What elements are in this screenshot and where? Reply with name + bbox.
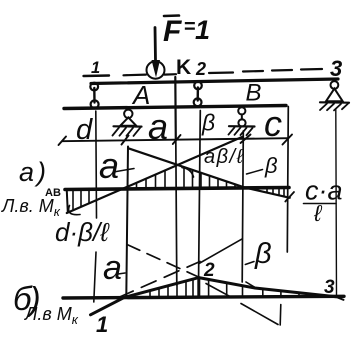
projection line at support 3 — [335, 110, 338, 297]
solid construction line to B — [199, 239, 242, 264]
support A (pinned) — [113, 110, 142, 136]
svg-text:1: 1 — [195, 15, 210, 45]
support B (roller link) — [229, 107, 255, 135]
leader for label a — [114, 169, 135, 173]
leader for label b — [247, 170, 263, 175]
main beam 1-K-2-3 — [91, 79, 338, 84]
dimension tick at A — [122, 136, 129, 145]
svg-text:а): а) — [19, 157, 49, 187]
svg-text:a: a — [103, 249, 122, 287]
dimension tick at B — [241, 135, 251, 144]
influence line b) rising line — [91, 278, 199, 315]
dashed construction rising line — [119, 262, 201, 298]
influence line b) descending line — [199, 278, 336, 297]
curved leader for d*b/l — [69, 206, 80, 215]
svg-text:3: 3 — [330, 56, 342, 81]
guide line segment left of circle — [124, 73, 147, 76]
influence line a) baseline — [65, 188, 289, 190]
svg-text:β: β — [264, 153, 278, 178]
dash below B vertical — [246, 282, 257, 289]
svg-text:1: 1 — [91, 59, 100, 77]
svg-text:Л.в Мк: Л.в Мк — [24, 304, 79, 327]
projection line at support B — [242, 131, 243, 282]
link 1 (hanger at node 1) — [90, 83, 98, 109]
svg-text:2: 2 — [203, 260, 215, 281]
projection line at support A — [126, 147, 128, 297]
right end value label c*a/l fraction — [304, 176, 343, 227]
hatching a) positive region — [137, 167, 236, 188]
hatching a) left negative region — [73, 191, 89, 210]
projection line at node 1 — [94, 111, 97, 302]
node 1 underline — [84, 74, 110, 77]
svg-text:β: β — [201, 110, 215, 136]
link 2 (hanger at node 2) — [194, 82, 202, 107]
guide line segment right of circle — [165, 73, 177, 76]
svg-text:d·β/ℓ: d·β/ℓ — [55, 217, 110, 247]
influence line b) end tail — [336, 297, 344, 300]
projection line at beam AB right end — [287, 107, 288, 253]
svg-text:B: B — [246, 80, 262, 107]
dimension tick left end — [59, 137, 67, 146]
influence line a) left end ordinate — [67, 191, 68, 213]
hatching b) left of peak — [150, 279, 193, 297]
force arrow — [152, 28, 161, 78]
svg-text:=: = — [184, 16, 196, 38]
dashed guide line 2 to 3 — [209, 69, 322, 73]
svg-text:1: 1 — [96, 312, 108, 337]
dashed construction line from A — [127, 245, 199, 278]
influence line a) right end slash — [285, 192, 294, 202]
stray diagonal below baseline — [241, 304, 278, 325]
leader for b in b) — [245, 262, 254, 265]
svg-text:a: a — [148, 106, 168, 147]
dimension tick right end — [283, 135, 293, 145]
dimension line — [62, 138, 288, 141]
influence line b) baseline — [63, 296, 344, 298]
support 3 (pinned) — [320, 81, 349, 110]
angle arc at crossing — [182, 168, 194, 178]
short construction line below apex — [206, 284, 232, 298]
svg-text:3: 3 — [324, 277, 335, 298]
svg-text:c·a: c·a — [305, 176, 343, 206]
stray vertical below baseline — [279, 305, 282, 326]
dimension tick at K — [173, 135, 181, 144]
projection line at node 2 — [199, 111, 201, 277]
svg-text:2: 2 — [195, 59, 206, 79]
svg-text:K: K — [176, 56, 191, 79]
svg-text:d: d — [76, 114, 93, 146]
svg-text:аβ/ℓ: аβ/ℓ — [204, 146, 245, 168]
force F=1 label — [163, 15, 210, 48]
load circle at K — [147, 61, 165, 78]
leader for a in b) — [118, 273, 125, 274]
influence line a) descending line — [128, 148, 289, 198]
svg-text:c: c — [264, 103, 282, 144]
svg-text:β: β — [254, 238, 272, 270]
lower beam AB — [64, 106, 286, 109]
svg-text:F: F — [163, 15, 182, 48]
svg-text:a: a — [99, 145, 119, 186]
svg-text:Л.в. Мк: Л.в. Мк — [1, 196, 61, 219]
projection line at section K — [174, 77, 177, 140]
hatching b) right of peak — [209, 279, 315, 296]
hatching a) right negative region — [267, 189, 284, 196]
influence line a) rising line — [67, 137, 243, 213]
peak ordinate at 2 — [197, 278, 200, 297]
